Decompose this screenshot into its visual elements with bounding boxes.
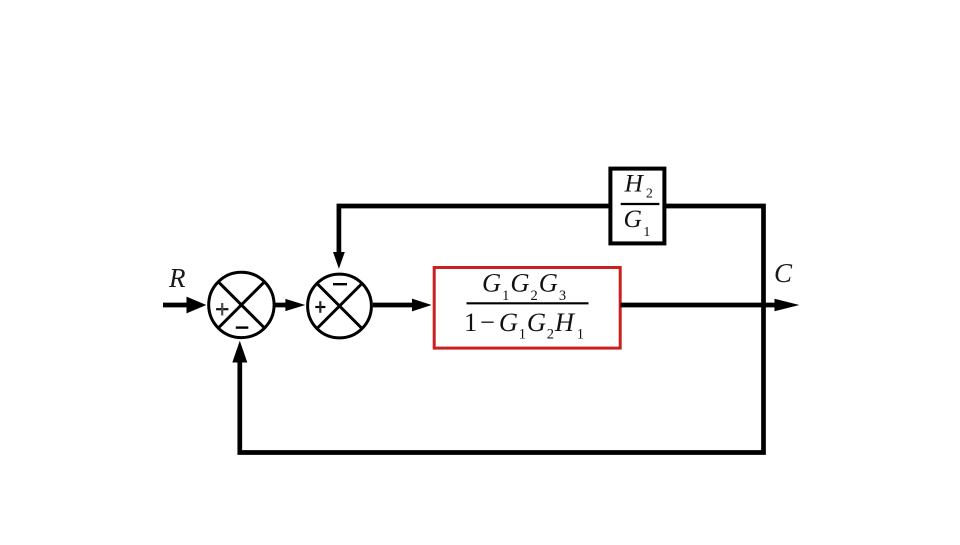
arrowhead into summing junction 2	[285, 299, 305, 311]
fraction bar of red block	[467, 302, 589, 304]
block H2/G1	[610, 169, 664, 244]
minus sign in summing junction 1	[236, 326, 249, 328]
svg-text:R: R	[168, 263, 186, 293]
X cross in summing junction 2	[317, 284, 362, 329]
minus sign in summing junction 2	[333, 283, 347, 285]
summing junction 1	[209, 272, 274, 337]
plus sign in summing junction 1	[216, 308, 228, 310]
arrowhead up into summing junction 1 (outer feedback)	[232, 341, 247, 363]
arrowhead output C	[775, 299, 800, 312]
wire transfer-function block to output C	[621, 303, 777, 308]
plus sign in summing junction 2	[315, 306, 325, 308]
svg-text:C: C	[774, 258, 793, 288]
arrowhead down into summing junction 2 (from H2/G1)	[333, 252, 345, 269]
arrowhead into transfer-function block	[412, 299, 432, 312]
wire feedback loop (top H2/G1 path, right vertical, bottom outer loop)	[240, 206, 764, 453]
fraction bar of H2/G1 block	[621, 203, 660, 205]
wire summing junction 1 to summing junction 2	[274, 303, 287, 308]
wire input R to summing junction 1	[163, 303, 188, 308]
wire summing junction 2 to transfer-function block	[373, 303, 414, 308]
X cross in summing junction 1	[218, 282, 264, 328]
arrowhead into summing junction 1	[187, 297, 207, 314]
summing junction 2	[308, 274, 372, 338]
block G1G2G3/(1-G1G2H1) red box	[434, 268, 620, 349]
